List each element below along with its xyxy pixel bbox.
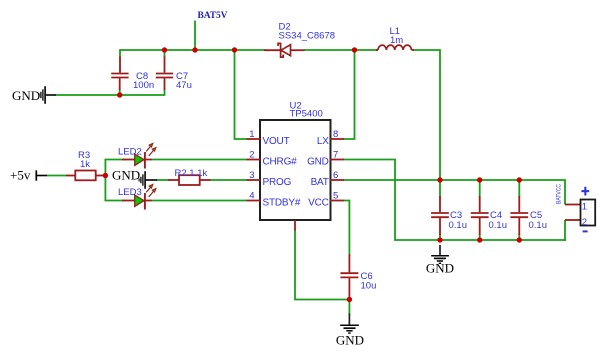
pin 4 STDBY#: [247, 200, 261, 202]
wire C4 stubs: [479, 180, 481, 241]
svg-text:2: 2: [249, 150, 254, 161]
power port +5v: [10, 168, 47, 183]
svg-text:1: 1: [249, 129, 254, 140]
svg-text:LED2: LED2: [118, 147, 142, 158]
svg-text:GND: GND: [12, 88, 40, 103]
wire C6 GND stub: [348, 300, 350, 315]
wire C3 stubs: [439, 180, 441, 241]
wire GND to C8/C7 bottom: [56, 94, 165, 96]
svg-text:8: 8: [333, 129, 338, 140]
wire GND to R2: [157, 179, 169, 181]
LED LED2: [118, 143, 156, 168]
wire R2 to PROG: [210, 179, 247, 181]
wire BAT5V label stub: [194, 21, 196, 51]
pin 9 pad: [294, 220, 296, 231]
svg-text:R2 1.1k: R2 1.1k: [175, 168, 208, 179]
svg-text:47u: 47u: [176, 80, 192, 91]
svg-text:1m: 1m: [390, 35, 403, 46]
pin 6 BAT: [330, 179, 344, 181]
capacitor C4: [471, 196, 507, 235]
svg-text:LX: LX: [317, 136, 329, 147]
junction C4 bottom on GND rail: [477, 237, 482, 242]
svg-text:1k: 1k: [80, 159, 90, 170]
wire LED2 cathode to CHRG#: [152, 159, 248, 161]
svg-text:2: 2: [582, 217, 587, 228]
wire C5 stubs: [518, 180, 520, 241]
svg-text:1: 1: [582, 202, 587, 213]
svg-text:+5v: +5v: [10, 168, 31, 183]
net label BAT5V: [198, 11, 228, 21]
ground GND middle (R2): [112, 168, 157, 189]
svg-text:7: 7: [333, 150, 338, 161]
svg-text:GND: GND: [307, 156, 329, 167]
junction C3 bottom on GND rail: [437, 237, 442, 242]
svg-text:BAT: BAT: [311, 177, 329, 188]
capacitor C5: [510, 196, 547, 235]
junction C7 top on BAT5V rail: [162, 47, 167, 52]
connector J1 BATVCC: [555, 184, 595, 233]
wire to LED2 anode: [105, 159, 126, 161]
wire LX to rail junction: [344, 49, 355, 139]
resistor R2: [168, 168, 211, 185]
junction C5 top on BAT row: [517, 177, 522, 182]
svg-text:0.1u: 0.1u: [489, 220, 508, 231]
wire +5v to R3: [47, 175, 67, 177]
capacitor C3: [431, 196, 467, 235]
wire C7 top/bottom stubs: [164, 50, 166, 96]
wire to LED3 anode: [105, 200, 126, 202]
junction C8 bottom on GND wire: [117, 92, 122, 97]
svg-text:SS34_C8678: SS34_C8678: [279, 31, 336, 42]
svg-text:CHRG#: CHRG#: [263, 156, 298, 167]
svg-text:PROG: PROG: [263, 177, 292, 188]
junction C6 bottom node: [347, 297, 352, 302]
pin 3 PROG: [247, 179, 261, 181]
svg-text:0.1u: 0.1u: [529, 220, 548, 231]
ground GND below C6: [336, 314, 364, 348]
svg-text:LED3: LED3: [118, 187, 142, 198]
svg-text:0.1u: 0.1u: [449, 220, 468, 231]
junction R3 output to LED rail: [103, 173, 108, 178]
svg-text:GND: GND: [426, 261, 454, 276]
ground GND below C3: [426, 245, 454, 276]
svg-text:4: 4: [249, 191, 254, 202]
junction C4 top on BAT row: [477, 177, 482, 182]
svg-text:GND: GND: [336, 333, 364, 348]
wire LED anode vertical: [104, 160, 106, 201]
wire GND pin to bottom rail: [344, 160, 567, 241]
svg-text:10u: 10u: [361, 281, 377, 292]
ground GND left: [12, 86, 56, 104]
svg-text:VCC: VCC: [308, 197, 329, 208]
svg-text:VOUT: VOUT: [263, 136, 290, 147]
pin 2 CHRG#: [247, 159, 261, 161]
wire D2 anode to LX junction: [304, 49, 378, 51]
capacitor C8: [111, 57, 154, 92]
junction BAT5V label stub on rail: [192, 47, 197, 52]
svg-text:100n: 100n: [133, 80, 154, 91]
pin 8 LX: [330, 138, 344, 140]
wire top rail BAT5V: [120, 49, 265, 51]
junction L1/C3 on BAT row: [437, 177, 442, 182]
wire VCC to C6: [344, 201, 350, 257]
svg-text:BAT5V: BAT5V: [198, 11, 228, 21]
wire C8 top/bottom stubs: [119, 49, 121, 95]
capacitor C6: [340, 254, 376, 299]
diode D2: [264, 22, 335, 58]
svg-text:GND: GND: [112, 168, 140, 183]
junction C5 bottom on GND rail: [517, 237, 522, 242]
resistor R3: [66, 150, 106, 180]
junction LX riser on rail: [352, 47, 357, 52]
capacitor C7: [156, 57, 192, 92]
svg-text:TP5400: TP5400: [290, 109, 323, 120]
junction VOUT riser on rail: [232, 47, 237, 52]
svg-text:3: 3: [249, 170, 254, 181]
pin 5 VCC: [330, 200, 344, 202]
wire LED3 cathode to STDBY#: [152, 200, 248, 202]
svg-text:5: 5: [333, 191, 338, 202]
pin 1 VOUT: [247, 138, 261, 140]
inductor L1: [376, 26, 414, 50]
IC U2 TP5400: [247, 100, 345, 230]
svg-text:BATVCC: BATVCC: [555, 184, 562, 204]
wire L1 to BAT column: [414, 50, 441, 181]
wire rail to VOUT pin: [235, 50, 248, 139]
wire BAT row: [344, 180, 566, 205]
LED LED3: [118, 184, 156, 209]
wire IC pad to C6 bottom: [295, 230, 350, 300]
svg-text:6: 6: [333, 170, 338, 181]
wire connector pin2 to bottom rail: [564, 220, 566, 241]
pin 7 GND: [330, 159, 344, 161]
svg-text:STDBY#: STDBY#: [263, 197, 301, 208]
